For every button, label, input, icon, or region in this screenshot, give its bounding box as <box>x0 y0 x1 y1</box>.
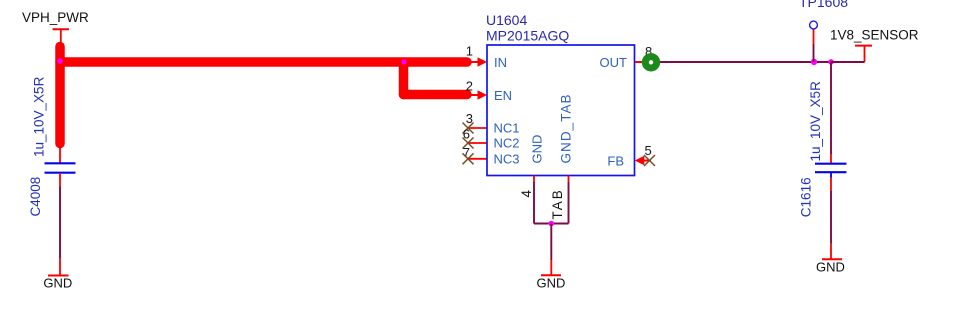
svg-text:C1616: C1616 <box>798 177 813 217</box>
net tie green donut on OUT <box>645 57 656 68</box>
svg-text:GND: GND <box>43 276 72 291</box>
svg-text:NC1: NC1 <box>494 121 520 136</box>
wire thick VPH_PWR vertical <box>55 47 65 144</box>
wire OUT net to junctions <box>660 61 831 63</box>
capacitor C4008 <box>28 76 76 216</box>
wire TAB to ground <box>550 224 552 276</box>
pin 8 OUT stub <box>635 44 652 62</box>
wire C1616 upper <box>830 62 832 163</box>
test point TP1608 <box>799 0 848 44</box>
ground below C1616 <box>816 259 845 274</box>
svg-text:VPH_PWR: VPH_PWR <box>22 10 89 25</box>
svg-text:IN: IN <box>494 55 507 70</box>
pin 6 NC2 stub <box>463 127 487 144</box>
no-connect X on pin 5 <box>644 155 655 166</box>
pin TAB GND_TAB stub below IC <box>550 176 569 224</box>
svg-text:MP2015AGQ: MP2015AGQ <box>486 28 569 44</box>
wire thick VPH_PWR horizontal to IN <box>60 57 467 67</box>
node junction C1616 <box>828 59 834 65</box>
svg-text:1u_10V_X5R: 1u_10V_X5R <box>32 76 47 157</box>
svg-text:1u_10V_X5R: 1u_10V_X5R <box>808 81 823 162</box>
svg-text:4: 4 <box>519 190 534 198</box>
no-connect X on pin 3 <box>463 123 474 134</box>
svg-text:OUT: OUT <box>600 55 628 70</box>
node junction at VPH_PWR <box>57 58 63 64</box>
svg-text:FB: FB <box>607 153 624 168</box>
svg-text:GND: GND <box>530 135 545 164</box>
wire C4008 lower <box>59 173 61 276</box>
svg-text:NC3: NC3 <box>494 151 520 166</box>
svg-text:TP1608: TP1608 <box>799 0 848 10</box>
no-connect X on pin 7 <box>463 153 474 164</box>
pin 2 EN stub and arrow <box>465 79 487 100</box>
capacitor C1616 <box>798 81 846 217</box>
node junction at branch <box>401 59 406 64</box>
node junction TP <box>811 59 817 65</box>
svg-text:1: 1 <box>466 44 473 59</box>
svg-text:1V8_SENSOR: 1V8_SENSOR <box>830 28 919 43</box>
pin 5 FB stub and arrow <box>635 143 652 165</box>
wire TP1608 to net <box>813 44 815 62</box>
svg-text:2: 2 <box>466 79 473 94</box>
wire C4008 upper <box>59 146 61 163</box>
pin 7 NC3 stub <box>463 145 487 160</box>
pin 1 IN stub and arrow <box>465 44 487 67</box>
node junction TAB <box>549 221 555 227</box>
ground below TAB <box>537 275 566 290</box>
pin 3 NC1 stub <box>466 111 487 128</box>
wire thick branch vertical to EN <box>399 62 409 95</box>
svg-text:C4008: C4008 <box>28 177 43 217</box>
svg-text:U1604: U1604 <box>486 12 527 28</box>
svg-text:TAB: TAB <box>550 188 565 219</box>
svg-text:NC2: NC2 <box>494 136 520 151</box>
svg-text:GND: GND <box>816 260 845 275</box>
svg-text:GND: GND <box>537 275 566 290</box>
power port 1V8_SENSOR <box>830 28 919 63</box>
no-connect X on pin 6 <box>463 138 474 149</box>
wire C1616 lower <box>830 173 832 259</box>
ground below C4008 <box>43 276 72 291</box>
svg-text:EN: EN <box>494 88 512 103</box>
wire joining GND pins <box>534 223 569 225</box>
pin 4 GND stub below IC <box>519 176 534 224</box>
wire thick branch horizontal to EN <box>404 90 468 100</box>
power port VPH_PWR <box>22 10 89 42</box>
op IC U1604 body <box>486 12 635 176</box>
svg-text:GND_TAB: GND_TAB <box>559 93 574 163</box>
